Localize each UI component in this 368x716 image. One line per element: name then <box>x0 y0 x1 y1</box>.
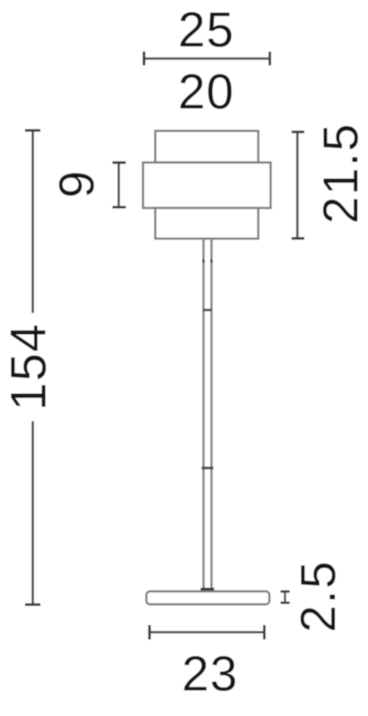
pole joint crossbar 2 <box>202 467 214 470</box>
svg-text:20: 20 <box>178 65 235 119</box>
svg-text:21.5: 21.5 <box>315 123 368 224</box>
lamp shade bottom tier <box>155 208 258 239</box>
svg-text:154: 154 <box>1 323 57 411</box>
pole base junction <box>201 588 215 592</box>
dimension line height 154 <box>32 130 34 313</box>
svg-text:9: 9 <box>51 171 105 198</box>
dimension line width 23 <box>150 631 265 633</box>
lamp shade middle tier <box>143 163 271 209</box>
svg-text:2.5: 2.5 <box>292 560 346 633</box>
pole right edge <box>210 240 212 592</box>
dimension line height 21.5 <box>296 132 298 239</box>
pole joint crossbar 1 <box>203 309 212 311</box>
base <box>146 591 269 604</box>
dimension line width 25 <box>144 57 270 59</box>
pole left edge <box>202 240 204 592</box>
dimension line height 2.5 <box>284 592 286 603</box>
svg-text:23: 23 <box>182 648 239 702</box>
dimension line height 9 <box>117 163 119 208</box>
svg-text:25: 25 <box>178 4 235 58</box>
lamp shade top tier <box>155 131 258 163</box>
pole joint marks upper <box>202 260 204 263</box>
